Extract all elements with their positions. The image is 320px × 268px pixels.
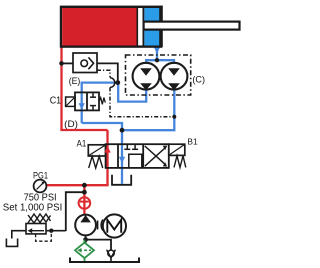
flow divider motor left — [133, 63, 160, 90]
wire black: red line to (E) — [62, 62, 74, 64]
arrow blue in DV1 center — [119, 157, 125, 164]
wire red: horizontal to valve A line — [60, 129, 107, 131]
wire black: branch to relief valve — [66, 192, 85, 231]
wire blue: C1 bottom to valve B line — [82, 123, 122, 130]
wire blue: through valve to tank — [121, 130, 123, 184]
filter F1 — [75, 240, 94, 262]
wire black: relief inlet from pump branch — [46, 230, 66, 232]
svg-text:C1: C1 — [50, 96, 62, 107]
wire blue: node to C1 valve — [82, 83, 118, 93]
node: (D) line end — [172, 115, 176, 119]
svg-text:(E): (E) — [69, 76, 81, 87]
valve C1 body — [75, 92, 99, 110]
directional valve DV1 body — [106, 144, 169, 168]
wire red: vertical through valve position 1 — [106, 130, 108, 185]
relief valve RV1 spring — [28, 214, 51, 223]
tank T2 relief — [6, 239, 17, 247]
svg-text:B1: B1 — [187, 137, 197, 147]
svg-text:PG1: PG1 — [33, 170, 48, 180]
pump P1 — [75, 215, 96, 236]
arrow blue in C1 — [79, 103, 85, 109]
wire black: (E) to node over divider drain — [97, 63, 118, 82]
node: divider inlet — [155, 58, 159, 62]
check valve CV2 bypass — [107, 250, 116, 262]
tank T1 below valve — [112, 175, 131, 185]
svg-text:A1: A1 — [77, 138, 87, 148]
wire black: pump suction — [85, 235, 87, 243]
wire red: pump pressure horizontal with PG1 branch — [46, 184, 108, 186]
tank line bottom — [70, 258, 139, 263]
valve C1 spring — [99, 98, 105, 105]
svg-text:(D): (D) — [64, 119, 78, 130]
wire blue: through C1 down — [81, 93, 83, 124]
svg-text:(C): (C) — [192, 75, 205, 86]
wire blue: left motor drain to node — [118, 83, 146, 102]
wire blue: right motor drain down and left — [122, 90, 174, 131]
directional valve DV1 right solenoid — [169, 144, 185, 155]
node: (E)/drain junction — [115, 80, 120, 85]
pilot line dashed — [36, 232, 52, 242]
node: relief branch tee — [82, 190, 87, 195]
flow divider enclosure (C) — [126, 55, 191, 95]
motor M1 — [103, 214, 126, 237]
node: pump line / PG1 tee — [82, 183, 87, 188]
arrow red in DV1 position 1 — [104, 146, 110, 153]
arrow blue into divider — [154, 47, 160, 54]
wire red: vertical pump to check valve — [83, 185, 85, 215]
node: red line tap at (E) — [59, 61, 64, 66]
cylinder CYL1 body — [61, 6, 163, 48]
wire blue: cylinder rod side down to divider — [156, 45, 158, 60]
gauge PG1 — [34, 180, 47, 193]
directional valve DV1 left solenoid — [88, 145, 105, 156]
svg-text:Set 1,000 PSI: Set 1,000 PSI — [3, 203, 63, 214]
wire black: relief to tank — [12, 231, 26, 239]
directional valve DV1 right spring — [174, 156, 186, 168]
valve C1 solenoid — [66, 97, 75, 106]
node: suction tee — [83, 237, 88, 242]
wire blue: divider inlet tee — [146, 60, 174, 63]
DV1 center box blocked stubs — [124, 144, 142, 168]
node: pilot tap — [49, 229, 53, 233]
coupling pump-motor — [97, 221, 99, 230]
enclosure line (D) dash-dot with hop — [97, 70, 110, 77]
wire red: cap-side vertical from cylinder down — [60, 45, 62, 130]
node: C1 to valve B junction — [120, 128, 125, 133]
relief valve RV1 — [26, 224, 46, 234]
directional valve DV1 left spring — [89, 156, 103, 168]
cylinder piston rod — [144, 22, 240, 30]
flow divider motor right — [161, 63, 188, 90]
check valve CV1 red — [79, 197, 91, 209]
wire black: bypass branch — [86, 240, 111, 250]
DV1 crossed arrows position — [145, 146, 167, 167]
check valve (E) — [73, 53, 97, 73]
